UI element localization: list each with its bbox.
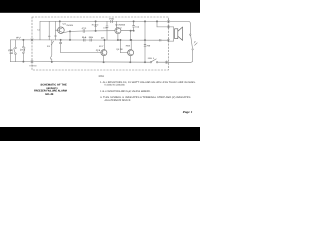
- junction node A: [69, 31, 70, 32]
- svg-text:Q2 2N2925: Q2 2N2925: [115, 23, 125, 26]
- junction top at switch S2: [23, 39, 24, 40]
- svg-text:9V: 9V: [16, 36, 21, 39]
- svg-text:THERM: THERM: [29, 65, 37, 68]
- svg-text:R3 470: R3 470: [92, 23, 99, 26]
- chassis dashed enclosure: [32, 17, 169, 70]
- capacitor C1: [39, 21, 41, 40]
- svg-text:R5: R5: [89, 36, 95, 39]
- wire: coupling line to Q2 base: [70, 30, 83, 32]
- svg-text:K=1000, M=1,000,000.: K=1000, M=1,000,000.: [105, 84, 126, 87]
- svg-text:2. ALL CAPACITORS ARE IN µF,: 2. ALL CAPACITORS ARE IN µF, UNLESS MARK…: [100, 90, 151, 93]
- junction bottom at switch S2: [23, 61, 24, 62]
- svg-text:3. THIS SYMBOL ✕ INDICATES A: 3. THIS SYMBOL ✕ INDICATES A TERMINAL ST…: [100, 96, 191, 99]
- svg-text:R8: R8: [126, 45, 132, 48]
- svg-text:Q4 2N: Q4 2N: [116, 48, 122, 51]
- bottom black band: [0, 127, 200, 141]
- resistor R1: [48, 21, 50, 40]
- resistor R6 inline in top rail: [111, 20, 113, 23]
- wire: external return lead (y=61.6): [10, 61, 32, 63]
- resistor R2: [55, 21, 57, 40]
- terminal feed-through right 4: [165, 61, 167, 64]
- resistor R4 inline in mid rail: [84, 39, 86, 41]
- top black band: [0, 0, 200, 13]
- arrow thermostat action: [9, 52, 12, 53]
- capacitor C3: [106, 21, 108, 40]
- terminal feed-through left upper: [31, 38, 33, 41]
- svg-text:GD-49: GD-49: [45, 93, 54, 96]
- junction C4 node: [133, 30, 134, 31]
- capacitor C4: [133, 21, 135, 31]
- junction Q4 collector at mid rail: [131, 39, 132, 40]
- junction S3 at ground rail: [51, 61, 52, 62]
- capacitor C2: [83, 30, 84, 33]
- wire: external battery branch: [9, 40, 11, 62]
- resistor R3: [95, 21, 97, 32]
- svg-text:C2: C2: [82, 27, 88, 30]
- resistor R9: [144, 21, 146, 63]
- wire: speaker bottom lead: [169, 40, 174, 42]
- wire: Q1 to coupling node: [63, 31, 70, 32]
- transistor Q1: [56, 21, 65, 33]
- junction Q4 emitter at ground rail: [130, 62, 131, 63]
- svg-text:C4: C4: [135, 25, 140, 28]
- svg-text:R9: R9: [147, 44, 152, 47]
- wire: top rail to push switch (outside): [169, 21, 191, 34]
- wire: Q2 collector line: [120, 27, 122, 29]
- svg-text:(M): (M): [8, 49, 13, 52]
- junction Q3 emitter at ground rail: [103, 62, 104, 63]
- wire: mid rail (y=40): [32, 39, 169, 41]
- thermostat switch S1 (M): [14, 40, 17, 62]
- junction Q1 collector at rail: [59, 21, 60, 22]
- terminal feed-through right 1: [167, 20, 169, 23]
- svg-text:2N2925: 2N2925: [66, 24, 73, 27]
- wire: node A down to mid rail: [69, 31, 71, 40]
- wire: tap to speaker terminal: [156, 21, 158, 27]
- svg-text:NOTES:: NOTES:: [99, 75, 105, 78]
- wire: Q4 base branch: [119, 40, 121, 53]
- svg-text:Page 1: Page 1: [183, 110, 193, 114]
- wire: Q2 output to C4 node: [121, 30, 134, 32]
- switch S3 (alarm hold): [51, 40, 54, 62]
- transistor Q2: [115, 21, 121, 40]
- push switch S5: [190, 34, 198, 50]
- junction Q3 collector at mid rail: [104, 39, 105, 40]
- svg-text:S1: S1: [47, 45, 51, 48]
- junction top rail right: [156, 21, 157, 22]
- terminal feed-through right 2: [167, 25, 169, 28]
- switch S4 on ground rail: [150, 59, 158, 63]
- wire: top supply rail (y=21.4): [40, 20, 169, 22]
- wire: base line to Q3: [61, 52, 101, 54]
- svg-text:Q3: Q3: [96, 49, 102, 52]
- wire: bottom ground rail (y=62.2): [32, 61, 150, 64]
- speaker LS1: [175, 27, 183, 40]
- junction Q2 emitter at mid rail: [117, 39, 118, 40]
- transistor Q4: [128, 40, 134, 62]
- svg-text:R4: R4: [82, 36, 88, 39]
- resistor R10 inline ticks: [159, 39, 161, 41]
- wire: external positive lead (y=40): [10, 39, 32, 41]
- terminal feed-through left lower: [31, 60, 33, 63]
- wire: push switch to ground terminal: [169, 50, 193, 62]
- svg-text:R6: R6: [109, 18, 115, 21]
- svg-text:(m): (m): [20, 49, 25, 52]
- junction node A at mid rail: [69, 39, 70, 40]
- test switch S2 (m): [23, 40, 25, 62]
- terminal feed-through right 3: [167, 39, 169, 42]
- svg-text:AN ALTERNATE DEVICE.: AN ALTERNATE DEVICE.: [105, 99, 132, 102]
- transistor Q3: [101, 40, 107, 62]
- resistor R5 inline in mid rail: [90, 39, 92, 41]
- capacitor C5: [60, 39, 62, 52]
- wire: feedback node down to Q4 base branch: [130, 31, 132, 40]
- svg-text:SW 1: SW 1: [148, 57, 156, 60]
- wire: speaker top lead: [169, 26, 174, 28]
